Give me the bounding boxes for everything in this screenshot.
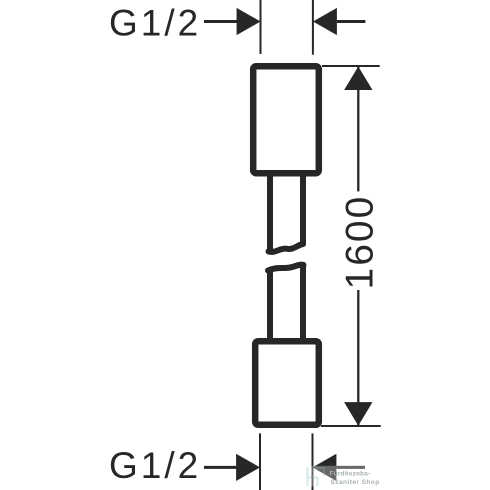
hose upper left wall [267,176,273,250]
extension line right bottom [321,425,381,427]
leader line top [204,20,239,23]
svg-text:Fürdöszoba-: Fürdöszoba- [330,470,371,477]
dimension arrow 1600 up [344,67,372,91]
hose lower left wall [267,271,273,340]
dimension arrow top-right [313,8,337,35]
dimension arrow bottom-right [313,454,337,481]
svg-text:Szaniter Shop: Szaniter Shop [331,479,380,486]
watermark icon [308,467,325,486]
extension tick top-right [312,0,314,55]
tail line top-right [337,20,366,23]
extension tick bottom-right [312,433,314,490]
hose break wave lower [268,265,304,271]
watermark card [303,466,394,487]
dimension line 1600 upper segment [357,67,359,192]
extension tick top-left [260,0,262,54]
extension line right top [322,65,380,67]
leader line bottom [204,466,238,469]
hose break wave upper [269,244,304,252]
svg-text:G1/2: G1/2 [109,445,201,486]
hose lower right wall [300,265,306,340]
dimension line 1600 lower segment [357,290,359,426]
tail line bottom-right [336,466,365,469]
svg-text:G1/2: G1/2 [109,3,201,44]
extension tick bottom-left [259,433,261,490]
hose upper right wall [300,176,306,244]
dimension arrow 1600 down [344,402,372,426]
dimension arrow top-left [237,8,261,35]
dimension arrow bottom-left [236,454,260,481]
svg-text:1600: 1600 [338,195,381,290]
top hose connector [253,66,319,173]
bottom hose connector [255,341,319,425]
